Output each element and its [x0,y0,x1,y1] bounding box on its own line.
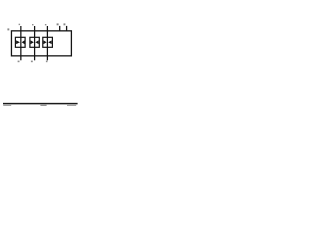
pin label below lead 3 [46,61,48,63]
arrester module F1 electrode bar [20,37,22,47]
enclosure box [11,31,71,56]
arrester module F2 right arrow [35,40,38,44]
title block text left [3,105,11,106]
arrester module F1 right arrow [22,40,25,44]
node label L3 [45,24,47,25]
arrester module F2 left arrow [31,40,34,44]
arrester module F1 box [15,37,25,47]
node label L1 [19,24,21,25]
title block text middle [40,105,46,106]
terminal stub PE [66,26,68,32]
node label L2 [32,24,34,25]
node label PE [64,23,66,25]
wire lead 3 (top stub through module F3 to bottom stub) [46,26,48,60]
arrester module F2 electrode bar [34,37,36,47]
title block text right [67,105,76,106]
pin label below lead 2 [31,61,33,63]
wire lead 2 (top stub through module F2 to bottom stub) [34,26,36,60]
arrester module F3 electrode bar [46,37,48,47]
terminal stub N [59,26,61,32]
arrester module F1 left arrow [16,40,20,44]
wire lead 1 (top stub through module F1 to bottom stub) [20,26,22,60]
arrester module F3 left arrow [44,40,47,44]
reference designator left of enclosure [7,28,9,30]
title block rule [3,103,78,105]
arrester module F3 right arrow [48,40,52,44]
pin label below lead 1 [18,61,20,63]
arrester module F3 box [43,37,53,47]
arrester module F2 box [30,37,39,47]
node label N [57,23,59,25]
